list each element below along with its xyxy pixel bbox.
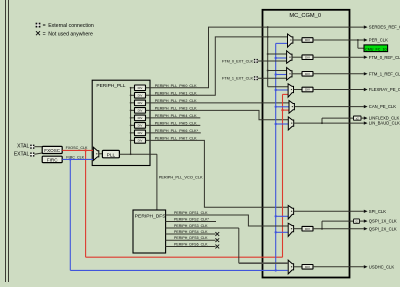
- svg-text:PERIPH_PLL_PHI5_CLK: PERIPH_PLL_PHI5_CLK: [155, 121, 197, 125]
- svg-text:DIV: DIV: [305, 227, 310, 231]
- svg-text:SERDES_REF_CLK: SERDES_REF_CLK: [369, 25, 400, 30]
- svg-text:CMU_FC_10: CMU_FC_10: [365, 48, 387, 52]
- svg-text:PERIPH_PLL_VCO_CLK: PERIPH_PLL_VCO_CLK: [159, 175, 203, 180]
- svg-text:PERIPH_DFS2_CLK*: PERIPH_DFS2_CLK*: [174, 217, 210, 221]
- svg-text:PERIPH_DFS5_CLK: PERIPH_DFS5_CLK: [174, 236, 208, 240]
- svg-text:FXOSC_CLK: FXOSC_CLK: [66, 146, 88, 150]
- svg-text:DIV: DIV: [138, 93, 143, 97]
- svg-text:PLL: PLL: [107, 152, 116, 158]
- svg-text:PERIPH_PLL_PHI1_CLK: PERIPH_PLL_PHI1_CLK: [155, 91, 197, 95]
- svg-text:PERIPH_PLL: PERIPH_PLL: [96, 83, 125, 89]
- svg-text:DIV: DIV: [305, 72, 310, 76]
- svg-text:DIV: DIV: [305, 88, 310, 92]
- svg-text:MC_CGM_0: MC_CGM_0: [289, 13, 321, 19]
- svg-text:DIV: DIV: [138, 116, 143, 120]
- svg-text:DIV: DIV: [138, 131, 143, 135]
- svg-text:DIV: DIV: [138, 138, 143, 142]
- svg-text:DIV: DIV: [138, 101, 143, 105]
- svg-text:External connection: External connection: [48, 23, 94, 29]
- svg-text:FTM_1_REF_CLK: FTM_1_REF_CLK: [369, 71, 400, 76]
- svg-text:PERIPH_DFS1_CLK: PERIPH_DFS1_CLK: [174, 211, 208, 215]
- svg-text:DIV: DIV: [138, 123, 143, 127]
- svg-text:PERIPH_DFS6_CLK: PERIPH_DFS6_CLK: [174, 242, 208, 246]
- svg-text:Not used anywhere: Not used anywhere: [48, 31, 93, 37]
- svg-text:EXTAL: EXTAL: [14, 151, 30, 157]
- svg-text:PERIPH_DFS: PERIPH_DFS: [135, 213, 166, 219]
- svg-text:PERIPH_PLL_PHI4_CLK: PERIPH_PLL_PHI4_CLK: [155, 114, 197, 118]
- svg-text:QSPI_1X_CLK: QSPI_1X_CLK: [369, 219, 397, 224]
- svg-text:PER_CLK: PER_CLK: [369, 38, 388, 43]
- svg-text:FIRC: FIRC: [47, 157, 58, 162]
- svg-text:XTAL: XTAL: [17, 143, 29, 149]
- svg-text:USDHC_CLK: USDHC_CLK: [369, 264, 395, 269]
- svg-text:FTM_0_EXT_CLK: FTM_0_EXT_CLK: [222, 59, 253, 63]
- svg-text:=: =: [43, 23, 46, 29]
- svg-text:PERIPH_PLL_PHI6_CLK*: PERIPH_PLL_PHI6_CLK*: [155, 129, 199, 133]
- svg-text:DIV: DIV: [305, 55, 310, 59]
- svg-text:PERIPH_DFS3_CLK: PERIPH_DFS3_CLK: [174, 224, 208, 228]
- svg-text:PERIPH_PLL_PHI7_CLK: PERIPH_PLL_PHI7_CLK: [155, 136, 197, 140]
- svg-text:FTM_1_EXT_CLK: FTM_1_EXT_CLK: [222, 77, 253, 81]
- svg-text:PERIPH_PLL_PHI3_CLK: PERIPH_PLL_PHI3_CLK: [155, 106, 197, 110]
- svg-text:CAN_PE_CLK: CAN_PE_CLK: [369, 104, 396, 109]
- svg-text:QSPI_2X_CLK: QSPI_2X_CLK: [369, 226, 397, 231]
- svg-text:DIV: DIV: [138, 108, 143, 112]
- svg-text:DIV: DIV: [305, 38, 310, 42]
- svg-text:PERIPH_PLL_PHI2_CLK: PERIPH_PLL_PHI2_CLK: [155, 99, 197, 103]
- svg-text:FIRC_CLK: FIRC_CLK: [66, 155, 84, 159]
- svg-text:DIV: DIV: [138, 86, 143, 90]
- svg-text:LIN_BAUD_CLK: LIN_BAUD_CLK: [369, 121, 400, 126]
- svg-text:FLEXRAY_PE_CLK: FLEXRAY_PE_CLK: [369, 87, 400, 92]
- svg-text:SPI_CLK: SPI_CLK: [369, 209, 386, 214]
- svg-text:=: =: [43, 31, 46, 37]
- svg-text:PERIPH_DFS4_CLK: PERIPH_DFS4_CLK: [174, 230, 208, 234]
- svg-text:FTM_0_REF_CLK: FTM_0_REF_CLK: [369, 55, 400, 60]
- svg-text:FXOSC: FXOSC: [44, 148, 61, 153]
- svg-text:x2: x2: [356, 116, 359, 120]
- svg-text:DIV: DIV: [305, 265, 310, 269]
- svg-text:PERIPH_PLL_PHI0_CLK: PERIPH_PLL_PHI0_CLK: [155, 84, 197, 88]
